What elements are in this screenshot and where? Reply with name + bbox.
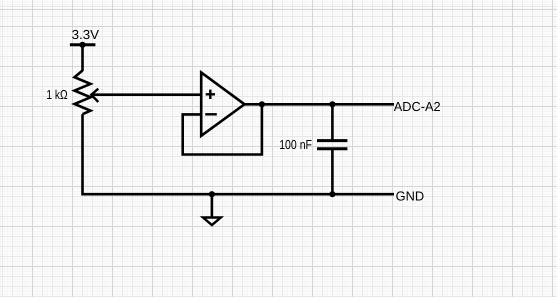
junction dot on power rail xyxy=(79,42,85,48)
power rail bar 3.3V xyxy=(70,43,96,46)
potentiometer wiper arrow head xyxy=(91,89,98,102)
capacitor C1 bottom lead xyxy=(331,149,334,195)
wire op-amp output to ADC-A2 xyxy=(245,103,395,106)
junction dot at ground symbol xyxy=(209,191,215,197)
svg-text:ADC-A2: ADC-A2 xyxy=(394,99,441,114)
capacitor C1 plates xyxy=(317,141,347,149)
potentiometer R1 body xyxy=(75,71,91,115)
op-amp U1 triangle xyxy=(201,72,244,135)
svg-text:3.3V: 3.3V xyxy=(72,27,100,42)
op-amp minus symbol xyxy=(205,113,217,115)
capacitor C1 top lead xyxy=(331,104,334,140)
junction dot at op-amp output xyxy=(259,101,265,107)
ground symbol triangle xyxy=(203,218,221,226)
ground symbol stem xyxy=(211,194,214,217)
wire power rail to potentiometer top xyxy=(81,45,84,71)
wire wiper to op-amp non-inverting input xyxy=(92,93,201,96)
junction dot capacitor top xyxy=(329,101,335,107)
svg-text:1 kΩ: 1 kΩ xyxy=(46,87,67,102)
svg-text:100 nF: 100 nF xyxy=(279,137,312,152)
op-amp plus symbol xyxy=(206,90,215,99)
wire potentiometer bottom to ground rail corner xyxy=(81,114,84,195)
junction dot capacitor bottom xyxy=(329,191,335,197)
svg-text:GND: GND xyxy=(396,188,425,203)
ground rail wire to GND label xyxy=(83,193,395,196)
feedback wire output to inverting input xyxy=(183,104,262,154)
